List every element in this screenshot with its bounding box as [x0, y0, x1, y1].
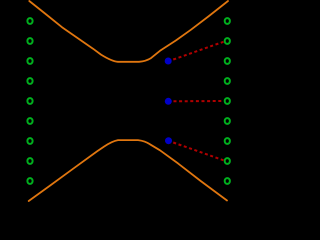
blue mode dot 2: [165, 98, 172, 105]
right ring 9: [225, 178, 230, 184]
right ring 3: [225, 58, 230, 64]
right ring 4: [225, 78, 230, 84]
red dashed coupling line 2: dot 2 to right ring 5: [169, 100, 224, 102]
right ring 8: [225, 158, 230, 164]
left ring 5: [27, 98, 32, 104]
red dashed coupling line 3: dot 3 to right ring 8: [169, 141, 224, 160]
right ring 5: [225, 98, 230, 104]
blue mode dot 1: [165, 58, 172, 65]
left ring 9: [27, 178, 32, 184]
left ring 8: [27, 158, 32, 164]
right ring 7: [225, 138, 230, 144]
left ring 7: [27, 138, 32, 144]
bottom orange boundary curve: [29, 140, 227, 201]
right ring 6: [225, 118, 230, 124]
red dashed coupling line 1: dot 1 to right ring 2: [169, 42, 224, 61]
left ring 2: [27, 38, 32, 44]
right column of green ring ports: [225, 18, 230, 184]
left ring 1: [27, 18, 32, 24]
top orange boundary curve: [29, 1, 228, 62]
left ring 4: [27, 78, 32, 84]
left column of green ring ports: [27, 18, 32, 184]
right ring 1: [225, 18, 230, 24]
right ring 2: [225, 38, 230, 44]
left ring 6: [27, 118, 32, 124]
blue mode dot 3: [165, 137, 172, 144]
left ring 3: [27, 58, 32, 64]
